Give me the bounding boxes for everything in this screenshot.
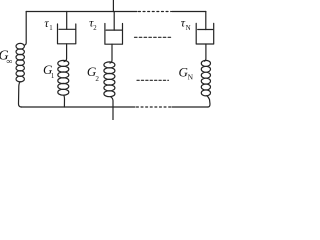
- wire top horizontal solid left: [26, 11, 137, 13]
- svg-text:N: N: [186, 24, 191, 32]
- wire from spring G_inf to bottom wire: [19, 82, 22, 107]
- wire spring G_2 to bottom wire: [111, 97, 114, 107]
- label G_2: [87, 64, 100, 83]
- wire dashpot N to spring G_N: [205, 44, 206, 61]
- dashpot tau_N piston rod: [205, 12, 207, 30]
- spring G_1 coil: [58, 60, 69, 95]
- label tau_N: [181, 16, 191, 32]
- svg-text:2: 2: [95, 75, 99, 83]
- wire bottom horizontal dashed middle: [137, 106, 172, 108]
- dashpot tau_2 piston rod: [113, 12, 115, 31]
- wire dashpot 1 to spring G_1: [64, 44, 67, 62]
- spring G_N coil: [201, 60, 210, 95]
- svg-text:2: 2: [93, 25, 97, 32]
- label G_infinity: [0, 49, 13, 67]
- wire dashpot 2 to spring G_2: [110, 44, 112, 63]
- spring G_inf coil: [16, 43, 24, 81]
- dashpot tau_2 cylinder cup: [105, 24, 123, 45]
- spring G_2 coil: [104, 62, 115, 97]
- dashpot tau_1 cylinder cup: [58, 24, 76, 44]
- wire spring G_1 to bottom wire: [63, 95, 66, 107]
- dashpot tau_1 piston rod: [66, 12, 68, 30]
- svg-text:N: N: [188, 73, 194, 82]
- wire left vertical from top wire to spring G_inf: [24, 12, 26, 46]
- wire bottom horizontal solid left: [21, 106, 135, 108]
- svg-text:1: 1: [49, 25, 52, 32]
- wire top horizontal dashed middle: [139, 11, 172, 13]
- dashed continuation between dashpots: [135, 36, 173, 38]
- label G_1: [43, 62, 54, 80]
- top terminal stub: [112, 0, 114, 12]
- label tau_2: [89, 16, 97, 32]
- dashpot tau_1 piston plate: [59, 28, 75, 30]
- bottom terminal stub: [112, 107, 114, 120]
- wire top horizontal solid right: [172, 11, 206, 13]
- label G_N: [179, 64, 194, 81]
- dashpot tau_N piston plate: [198, 29, 213, 31]
- wire spring G_N to bottom wire right corner: [207, 96, 210, 107]
- dashpot tau_N cylinder cup: [196, 23, 214, 44]
- dashed continuation between springs: [137, 79, 169, 81]
- svg-text:1: 1: [51, 73, 54, 80]
- dashpot tau_2 piston plate: [106, 29, 122, 31]
- svg-text:∞: ∞: [7, 56, 13, 66]
- label tau_1: [44, 16, 52, 32]
- wire bottom horizontal solid right: [172, 106, 208, 108]
